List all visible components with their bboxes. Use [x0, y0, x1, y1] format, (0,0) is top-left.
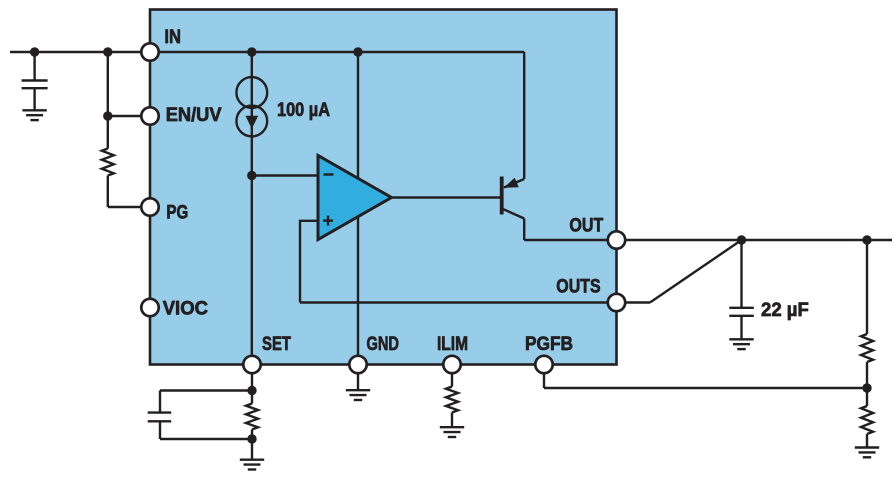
wire: OUTS sense feedback run — [300, 301, 617, 303]
wire: set cap bottom horizontal — [160, 438, 252, 440]
wire: feedback divider drop — [866, 240, 868, 334]
wire: SET pin to set network node — [251, 365, 253, 391]
op-amp minus symbol — [324, 173, 334, 175]
ground (ILIM) — [440, 427, 464, 437]
ground (GND pin) — [346, 390, 370, 400]
wire: divider mid — [866, 362, 868, 406]
junction dot IN rail / current source — [247, 47, 256, 56]
svg-text:OUTS: OUTS — [556, 276, 600, 298]
wire: set node to ground — [251, 439, 253, 460]
svg-text:IN: IN — [164, 26, 181, 48]
svg-text:100 µA: 100 µA — [277, 99, 330, 121]
current source arrowhead — [245, 116, 258, 129]
wire: ILIM resistor to ground — [451, 413, 453, 428]
op-amp U1 (error amplifier) — [318, 156, 392, 240]
pin VIOC — [141, 299, 158, 316]
junction dot EN/UV node — [103, 111, 112, 120]
ground (SET network) — [240, 460, 264, 470]
pin ILIM — [443, 356, 460, 373]
pin OUT — [608, 231, 625, 248]
pin OUTS — [608, 294, 625, 311]
wire: stub to PG pin — [108, 206, 150, 208]
wire: OUT rail outside block — [617, 239, 893, 241]
junction dot minus node — [247, 171, 256, 180]
current source 100 uA (two circles) — [236, 77, 267, 108]
svg-text:OUT: OUT — [569, 215, 603, 237]
wire: input cap drop — [33, 52, 35, 81]
wire: internal IN rail across top of block — [150, 51, 524, 53]
svg-text:VIOC: VIOC — [163, 298, 208, 320]
resistor (SET) — [246, 404, 258, 430]
junction dot divider mid / PGFB — [862, 383, 871, 392]
ground (feedback divider) — [855, 448, 879, 458]
wire: to ground — [866, 434, 868, 448]
wire: resistor bottom to PG level — [107, 176, 109, 208]
svg-text:SET: SET — [262, 333, 291, 355]
op-amp plus symbol — [323, 216, 333, 226]
pin GND — [349, 356, 366, 373]
wire: resistor top stub — [251, 391, 253, 404]
junction dot input cap — [30, 47, 39, 56]
transistor Q1 emitter arrowhead — [504, 178, 519, 188]
svg-text:GND: GND — [367, 333, 400, 355]
wire: set cap top horizontal — [160, 389, 252, 391]
pin PGFB — [535, 356, 552, 373]
pin EN/UV — [141, 107, 158, 124]
wire: OUTS diagonal to output node — [650, 240, 742, 303]
wire: GND drop behind op-amp — [357, 52, 359, 365]
wire: input rail from left edge to IN pin — [10, 51, 150, 53]
wire: SET drop from minus node to SET pin — [251, 176, 253, 365]
junction dot IN rail / GND drop — [353, 47, 362, 56]
capacitor (SET bypass) — [148, 413, 172, 439]
wire: stub to EN/UV pin — [108, 115, 150, 117]
wire: PGFB horizontal run — [544, 387, 867, 389]
wire: collector down to OUT level — [523, 219, 525, 241]
IC block body — [150, 10, 617, 365]
ground (output cap) — [729, 339, 753, 349]
transistor Q1 emitter diagonal — [504, 179, 524, 188]
transistor Q1 collector diagonal — [502, 209, 525, 219]
wire: EN/UV branch drop — [107, 52, 109, 116]
transistor Q1 (PNP pass device) base bar — [500, 177, 504, 215]
capacitor (input bypass) — [22, 81, 48, 111]
wire: set cap left drop — [159, 391, 161, 413]
wire: PGFB pin drop — [543, 365, 545, 389]
resistor (EN/UV to PG pull-down) — [102, 149, 114, 176]
junction dot set network top — [247, 386, 256, 395]
resistor (ILIM) — [446, 387, 458, 413]
svg-text:ILIM: ILIM — [437, 333, 468, 355]
wire: emitter vertical from IN rail — [523, 52, 525, 179]
wire: op-amp output to transistor base — [392, 196, 502, 198]
svg-text:PG: PG — [166, 202, 188, 224]
wire: output cap drop — [740, 240, 742, 308]
pin PG — [141, 198, 158, 215]
wire: ILIM pin stub — [451, 365, 453, 387]
pin IN — [141, 43, 158, 60]
junction dot output node — [737, 235, 746, 244]
pin SET — [243, 356, 260, 373]
svg-text:EN/UV: EN/UV — [166, 104, 222, 126]
resistor (feedback bottom) — [861, 406, 873, 434]
junction dot set network bottom — [247, 434, 256, 443]
wire: node to resistor top — [107, 116, 109, 149]
resistor (feedback top) — [861, 334, 873, 362]
wire: minus input tap — [252, 174, 318, 176]
svg-text:PGFB: PGFB — [525, 333, 573, 355]
ground (input cap) — [22, 110, 46, 120]
wire: plus input stub — [300, 221, 318, 303]
junction dot EN branch — [103, 47, 112, 56]
capacitor 22 uF — [729, 308, 754, 339]
svg-text:22 µF: 22 µF — [761, 299, 809, 321]
junction dot divider top — [862, 235, 871, 244]
wire: collector to OUT pin — [524, 239, 616, 241]
wire: resistor bottom stub — [251, 430, 253, 440]
wire: GND pin stub — [357, 365, 359, 391]
wire: OUTS stub — [621, 301, 650, 303]
wire: current source drop from IN rail to error amp minus node — [251, 52, 253, 176]
